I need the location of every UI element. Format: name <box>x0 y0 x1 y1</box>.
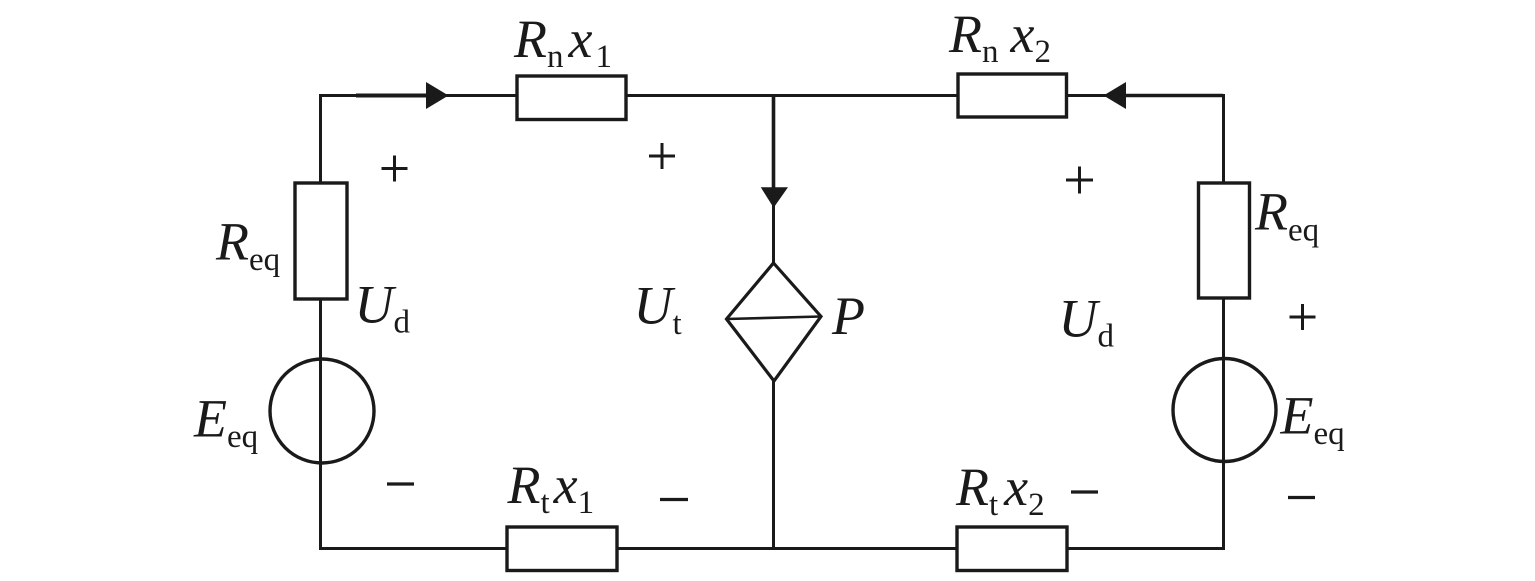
resistor Rt x2 (bottom right box) <box>957 527 1067 571</box>
resistor Rn x2 (top right box) <box>958 74 1067 117</box>
minus sign center <box>660 498 688 501</box>
source Eeq left (circle) <box>270 359 374 463</box>
resistor Req right (vertical box) <box>1199 183 1250 298</box>
arrow tail center vertical <box>772 96 776 191</box>
svg-text:Rnx2: Rnx2 <box>948 4 1051 70</box>
svg-text:Ud: Ud <box>355 275 411 341</box>
resistor Rn x1 (top left box) <box>517 76 626 120</box>
resistor Rt x1 (bottom left box) <box>507 527 617 571</box>
svg-text:Rtx1: Rtx1 <box>507 455 595 521</box>
wire left vertical <box>319 94 322 550</box>
arrow tail top-right <box>1122 94 1223 98</box>
svg-text:Rtx2: Rtx2 <box>955 457 1045 523</box>
arrowhead down-pointing (center) <box>761 187 788 208</box>
svg-text:Ud: Ud <box>1059 289 1115 355</box>
plus sign left <box>382 156 408 182</box>
dependent source P (diamond) <box>727 263 822 381</box>
plus sign right <box>1066 167 1093 194</box>
wire right vertical <box>1222 94 1225 550</box>
arrow tail top-left <box>356 94 430 98</box>
diamond crossing line <box>727 317 822 320</box>
minus sign right mid <box>1071 490 1098 493</box>
source Eeq right (circle) <box>1173 359 1276 462</box>
arrowhead right-pointing (top-left) <box>426 82 449 109</box>
svg-text:Rnx1: Rnx1 <box>513 9 612 75</box>
svg-text:Eeq: Eeq <box>1280 386 1345 453</box>
minus sign left <box>387 482 414 485</box>
svg-text:Ut: Ut <box>634 276 682 343</box>
wire center vertical <box>772 96 775 549</box>
resistor Req left (vertical box) <box>295 183 347 299</box>
svg-text:P: P <box>831 286 865 346</box>
svg-text:Req: Req <box>215 212 280 279</box>
arrowhead left-pointing (top-right) <box>1104 82 1127 109</box>
svg-text:Req: Req <box>1254 182 1319 249</box>
wire top <box>321 94 1224 97</box>
plus sign center <box>649 143 675 169</box>
minus sign far right <box>1288 496 1315 499</box>
wire bottom <box>319 547 1225 550</box>
plus sign far right <box>1290 304 1316 330</box>
svg-text:Eeq: Eeq <box>193 389 258 456</box>
